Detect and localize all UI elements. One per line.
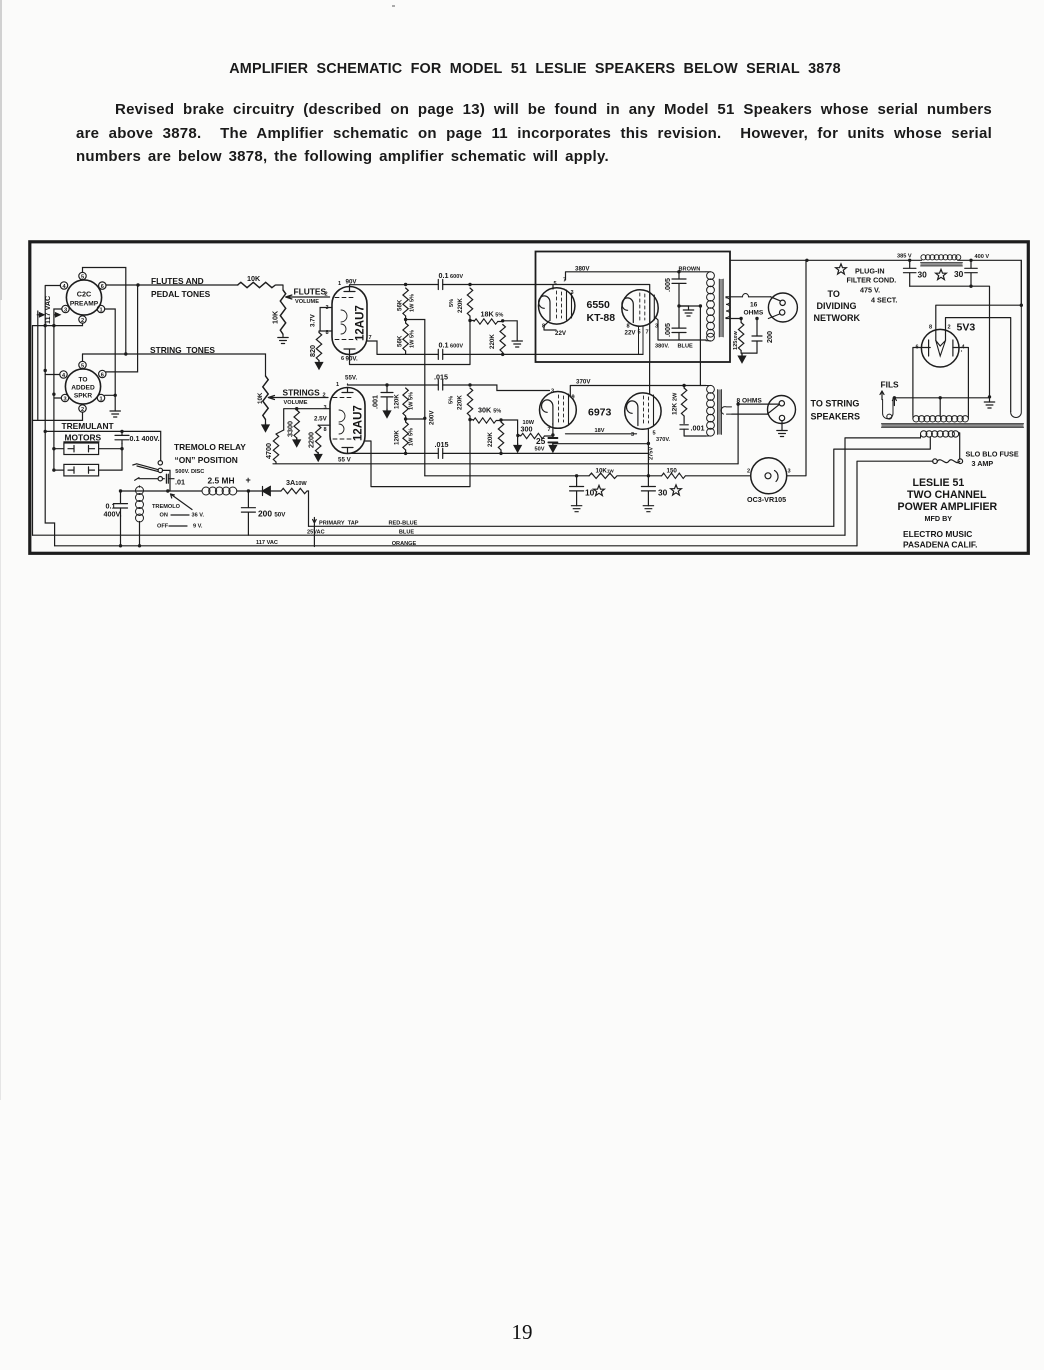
wire secondary to 16 ohm jack: [726, 297, 771, 319]
svg-text:7: 7: [646, 330, 649, 336]
tube 6550/KT-88 #2: [622, 290, 658, 326]
relay contact 3: [158, 477, 162, 481]
svg-text:18V: 18V: [595, 428, 605, 434]
svg-text:12510W: 12510W: [733, 331, 739, 350]
pin 1 (spkr): [97, 394, 104, 402]
svg-text:50V: 50V: [535, 447, 545, 453]
capacitor .005 (upper): [678, 272, 680, 306]
svg-text:3: 3: [788, 469, 791, 475]
ground (820): [315, 361, 322, 370]
tube socket C2C PREAMP: [66, 280, 101, 315]
capacitor 0.1 600V (lower coupling): [367, 341, 643, 354]
wire cap/coil drops: [120, 535, 122, 546]
svg-text:BLUE: BLUE: [399, 530, 414, 536]
svg-text:3300: 3300: [286, 421, 295, 437]
svg-text:ADDED: ADDED: [71, 385, 95, 392]
capacitor 30 (star): [647, 476, 649, 506]
filament bus wire: [894, 397, 989, 399]
resistor 3A 10W: [281, 478, 309, 526]
svg-text:.005: .005: [663, 278, 672, 292]
svg-text:.015: .015: [435, 440, 449, 449]
svg-text:400V.: 400V.: [104, 510, 122, 519]
center tap 5V winding: [939, 398, 941, 416]
tube 6973 #1: [540, 392, 577, 429]
wire left bus 1: [32, 326, 34, 536]
wire box B+ to filter: [730, 259, 910, 261]
svg-text:400 V: 400 V: [975, 254, 990, 260]
svg-text:OC3-VR105: OC3-VR105: [747, 495, 786, 504]
svg-text:ELECTRO MUSIC: ELECTRO MUSIC: [903, 529, 972, 539]
choke core: [921, 263, 963, 266]
svg-text:1: 1: [336, 382, 339, 388]
speaker jack 8 ohms J2: [767, 396, 795, 424]
svg-text:220K: 220K: [457, 298, 464, 313]
svg-text:3: 3: [631, 432, 634, 438]
ground (30): [643, 506, 653, 512]
tube 12AU7 (strings) V2: [330, 388, 365, 454]
pin 4 (preamp): [60, 282, 67, 290]
svg-text:RED-BLUE: RED-BLUE: [389, 521, 418, 527]
capacitor .01 disc: [163, 474, 186, 486]
wire pin5 top loop to string tones junction: [83, 268, 126, 355]
svg-text:.005: .005: [663, 323, 672, 337]
svg-text:1: 1: [99, 307, 102, 313]
wire rail left riser: [425, 475, 589, 477]
resistor 2200: [318, 424, 330, 426]
wire 18V line: [566, 433, 637, 435]
svg-text:PLUG-IN: PLUG-IN: [855, 267, 885, 276]
capacitor .001 (12K): [680, 425, 689, 429]
ground (125/200): [741, 353, 757, 356]
svg-text:5: 5: [638, 330, 641, 336]
117VAC primary winding: [921, 431, 959, 438]
svg-text:18K 5%: 18K 5%: [481, 310, 504, 319]
wire to pot: [276, 285, 283, 290]
svg-text:3: 3: [324, 405, 327, 411]
svg-text:2200: 2200: [307, 432, 316, 448]
inductor 2.5MH: [202, 476, 248, 496]
wire relay contact2 to B line: [163, 470, 171, 491]
pin 5 (preamp): [79, 272, 86, 280]
svg-text:TO: TO: [78, 377, 87, 384]
wire spkr pin3: [54, 394, 61, 469]
svg-text:5%: 5%: [449, 299, 455, 307]
ground (strings 220K): [514, 444, 521, 453]
pin 6 (preamp): [99, 282, 106, 290]
svg-text:3: 3: [64, 307, 67, 313]
wire motors left: [54, 449, 64, 470]
svg-text:30: 30: [918, 270, 928, 280]
ground (preamp p1): [110, 411, 120, 417]
rectifier tube 5V3: [921, 329, 961, 367]
5V rectifier filament winding: [913, 415, 969, 422]
wire orange rail to fuse: [857, 461, 933, 546]
wire red-blue rail to primary tap: [834, 437, 931, 526]
PT core: [882, 424, 1024, 427]
node +: [247, 489, 250, 492]
wire pin4 left: [45, 286, 60, 371]
svg-text:STRINGS: STRINGS: [283, 388, 321, 398]
star (10): [594, 485, 605, 495]
tube 6973 #2: [625, 393, 661, 429]
wire 220K top to 300 node: [501, 420, 518, 436]
svg-text:3A10W: 3A10W: [286, 478, 307, 487]
svg-text:220K: 220K: [457, 395, 464, 410]
svg-text:55V.: 55V.: [345, 375, 357, 382]
wire grid1 entering box + screen tie: [537, 285, 650, 363]
svg-text:MFD BY: MFD BY: [925, 514, 953, 523]
svg-text:2: 2: [323, 393, 326, 399]
wire 5V3 pin6 down: [913, 348, 922, 416]
svg-text:220K: 220K: [489, 334, 496, 349]
svg-text:.015: .015: [434, 373, 448, 382]
svg-text:500V. DISC: 500V. DISC: [175, 469, 204, 475]
svg-text:200: 200: [765, 331, 774, 343]
pin 2 (spkr): [79, 405, 86, 413]
svg-text:2: 2: [325, 292, 328, 298]
svg-text:BLUE: BLUE: [678, 343, 693, 349]
wire 5V3 pin4 down: [962, 348, 969, 416]
svg-text:8: 8: [324, 427, 327, 433]
svg-text:FLUTES AND: FLUTES AND: [151, 276, 204, 286]
svg-text:200V: 200V: [429, 410, 436, 425]
tube 12AU7 (flutes) V1: [332, 287, 367, 355]
svg-text:12K 2W: 12K 2W: [672, 392, 679, 415]
svg-text:POWER AMPLIFIER: POWER AMPLIFIER: [898, 501, 998, 513]
svg-text:MOTORS: MOTORS: [65, 433, 102, 443]
resistor 12K 2W: [681, 388, 686, 416]
svg-text:10K: 10K: [257, 392, 264, 404]
svg-text:0.1 600V: 0.1 600V: [439, 341, 464, 350]
svg-text:820: 820: [308, 345, 317, 357]
page title: [13, 61, 1044, 77]
output transformer T1 primary: [706, 272, 714, 341]
resistor 120K 1W5% (upper): [403, 388, 408, 416]
resistor 220K 5% (strings grid 1): [467, 388, 472, 416]
svg-text:3.7V: 3.7V: [310, 313, 317, 327]
wire left bus 3: [45, 371, 54, 546]
svg-text:8: 8: [929, 325, 932, 331]
svg-text:3: 3: [571, 290, 574, 296]
svg-text:6550: 6550: [587, 299, 611, 311]
tube socket TO ADDED SPKR: [65, 369, 100, 404]
svg-text:FILTER COND.: FILTER COND.: [847, 276, 897, 285]
pin 6 (spkr): [99, 370, 106, 378]
svg-text:22V: 22V: [625, 330, 637, 337]
svg-text:2: 2: [948, 325, 951, 331]
power transformer PT windings top: left loop: [883, 398, 893, 419]
svg-text:SPEAKERS: SPEAKERS: [811, 412, 861, 422]
svg-text:.001: .001: [691, 424, 705, 433]
svg-text:5: 5: [653, 431, 656, 437]
pin 2 (preamp): [79, 316, 86, 324]
NFB wire: [406, 320, 425, 476]
svg-text:VOLUME: VOLUME: [295, 299, 319, 305]
svg-text:TREMOLO RELAY: TREMOLO RELAY: [174, 442, 246, 452]
wire spkr pin5 top: [82, 354, 84, 361]
svg-text:.001: .001: [371, 395, 380, 409]
svg-text:.01: .01: [175, 478, 185, 487]
svg-text:200 50V: 200 50V: [258, 509, 286, 519]
ground (PT center): [989, 399, 991, 402]
svg-text:10K: 10K: [247, 274, 261, 283]
resistor 3300: [284, 409, 330, 430]
cathode 22V wire tube1: [544, 321, 556, 330]
diode: [248, 487, 281, 496]
svg-text:6: 6: [341, 356, 344, 362]
svg-text:1W 5%: 1W 5%: [410, 294, 416, 312]
relay armature: [133, 464, 158, 481]
svg-text:7: 7: [369, 335, 372, 341]
wire motors right: [99, 443, 122, 470]
capacitor 200 50V: [241, 491, 286, 535]
117VAC input arrows: [37, 313, 60, 317]
relay coil: [136, 486, 144, 546]
capacitor .015 (upper coupling): [406, 384, 470, 386]
capacitor 30 (filter 1): [909, 260, 911, 286]
tremolo legend pointer: [171, 494, 193, 510]
potentiometer 10K flutes volume: [271, 290, 330, 344]
plate wire 380V to transformer: [566, 272, 707, 280]
svg-text:3: 3: [551, 389, 554, 395]
svg-text:5%: 5%: [449, 396, 455, 404]
svg-text:5: 5: [81, 274, 84, 280]
ground (between .005s): [679, 306, 689, 310]
svg-text:PREAMP: PREAMP: [70, 301, 99, 308]
svg-text:2.5 MH: 2.5 MH: [208, 476, 235, 486]
T2 secondary: [721, 407, 732, 415]
svg-text:9: 9: [572, 395, 575, 401]
wire 6973 cathode bus: [553, 443, 649, 445]
svg-text:16: 16: [750, 302, 758, 309]
wire relay common to B line: [121, 490, 203, 492]
svg-text:3 AMP: 3 AMP: [972, 459, 994, 468]
capacitor .005 (lower): [679, 306, 706, 340]
capacitor 0.1 400V (line): [104, 491, 128, 535]
wire plate top to B+ rail: [350, 285, 406, 287]
capacitor .015 (lower coupling): [348, 452, 350, 454]
pin 1 (preamp): [97, 305, 104, 313]
svg-text:56K: 56K: [397, 299, 404, 311]
svg-text:PRIMARY TAP: PRIMARY TAP: [319, 521, 359, 527]
svg-text:TREMULANT: TREMULANT: [62, 421, 115, 431]
svg-text:6973: 6973: [588, 407, 612, 419]
ground (18K/220K): [503, 321, 518, 341]
wire blue rail to primary: [845, 438, 921, 535]
output stage box: [536, 252, 731, 363]
svg-text:90V.: 90V.: [346, 356, 358, 363]
capacitor 200 (across 125): [756, 319, 758, 354]
svg-text:120K: 120K: [394, 430, 401, 445]
svg-text:FLUTES: FLUTES: [294, 287, 327, 297]
svg-text:22V: 22V: [555, 330, 567, 337]
svg-text:1W 5%: 1W 5%: [409, 392, 415, 410]
wire pin1 down to ground: [105, 309, 116, 411]
intro paragraph: [76, 98, 992, 169]
resistor 120K 1W5% (lower): [403, 422, 408, 450]
capacitor 0.1 600V (upper coupling): [406, 284, 537, 286]
grid wire tube2 from 0.1 cap: [639, 326, 644, 354]
schematic frame: [30, 242, 1029, 554]
filter choke L1: [921, 255, 961, 260]
wire 400V to 5V3 pin8: [936, 260, 1022, 340]
capacitor 0.1 400V (motor): [115, 431, 160, 444]
svg-text:FILS: FILS: [881, 380, 900, 390]
T2 core: [718, 390, 722, 435]
svg-text:OHMS: OHMS: [744, 310, 764, 317]
svg-text:5: 5: [81, 363, 84, 369]
pin 3 (preamp): [62, 305, 69, 313]
T1 core: [719, 279, 723, 337]
wire tremolo top rail: [45, 431, 161, 460]
tremulant motor 1: [64, 443, 99, 455]
svg-text:10K1W: 10K1W: [596, 468, 615, 475]
relay contact 2: [158, 468, 162, 472]
wire plate 2 bottom rail: [350, 321, 471, 365]
svg-text:5V3: 5V3: [957, 322, 976, 334]
svg-text:PASADENA CALIF.: PASADENA CALIF.: [903, 540, 977, 550]
wire pin2 to left bus: [33, 323, 83, 325]
svg-text:+: +: [246, 475, 251, 485]
svg-text:C2C: C2C: [77, 290, 91, 299]
svg-text:120K: 120K: [394, 394, 401, 409]
HV winding right loop: [1011, 260, 1022, 417]
svg-text:25VAC: 25VAC: [307, 530, 325, 536]
svg-text:300: 300: [521, 425, 533, 434]
wire rail blue: [33, 534, 846, 536]
wire flutes to spkr pin6: [106, 285, 137, 372]
tube 6550/KT-88 #1: [539, 288, 575, 324]
svg-text:PEDAL TONES: PEDAL TONES: [151, 289, 211, 299]
svg-text:380V.: 380V.: [655, 344, 670, 350]
svg-text:2.5V: 2.5V: [314, 416, 328, 423]
filter ground bus: [910, 286, 990, 397]
cathode 6973#1 to 25/50V: [552, 424, 554, 438]
wire 120K junction to NFB: [406, 418, 425, 420]
speaker jack 16 ohms J1: [768, 293, 797, 322]
svg-text:TREMOLO: TREMOLO: [152, 504, 181, 510]
capacitor 10 (star): [576, 476, 578, 506]
svg-text:36 V.: 36 V.: [192, 513, 205, 519]
ground (8 ohm jack): [781, 421, 783, 431]
B+ wire 370V: [570, 386, 706, 398]
svg-text:220K: 220K: [487, 432, 494, 447]
resistor 125 10W: [739, 317, 742, 320]
capacitor .001 + ground: [385, 383, 388, 386]
wire spkr pin2 down: [33, 412, 83, 420]
svg-text:12AU7: 12AU7: [355, 305, 367, 341]
wire spkr pin4: [45, 374, 60, 376]
FILS arrows: [880, 391, 896, 406]
wire 25VAC tap: [313, 518, 317, 547]
svg-text:6: 6: [101, 372, 104, 378]
svg-text:7: 7: [548, 427, 551, 433]
svg-text:6: 6: [101, 284, 104, 290]
svg-text:10K: 10K: [271, 310, 280, 324]
svg-text:VOLUME: VOLUME: [284, 400, 308, 406]
wire plate top (strings): [348, 384, 406, 385]
resistor 220K (strings grid 2): [498, 422, 503, 450]
svg-text:4700: 4700: [264, 443, 273, 459]
pin 3 (spkr): [61, 394, 68, 402]
svg-text:1: 1: [99, 396, 102, 402]
svg-text:NETWORK: NETWORK: [814, 313, 861, 323]
resistor 10K (flutes series): [238, 274, 276, 288]
cathode junction 6973: [647, 442, 650, 445]
svg-text:30: 30: [954, 269, 964, 279]
svg-text:0.1 600V: 0.1 600V: [439, 271, 464, 280]
star (filter mid): [936, 269, 947, 279]
wire OC3 to filter riser: [787, 260, 806, 476]
svg-text:SLO BLO FUSE: SLO BLO FUSE: [966, 450, 1019, 459]
resistor 4700: [276, 430, 284, 434]
wire spkr pin1 to ground: [105, 394, 116, 396]
svg-text:TO STRING: TO STRING: [811, 399, 860, 409]
svg-text:385 V: 385 V: [897, 254, 912, 260]
relay contact 1: [158, 461, 162, 465]
svg-text:117 VAC: 117 VAC: [43, 296, 52, 324]
fuse 3A slo-blo: [933, 459, 963, 464]
svg-text:1W 5%: 1W 5%: [410, 330, 416, 348]
svg-text:475 V.: 475 V.: [860, 286, 880, 295]
tremulant motor 2: [64, 464, 99, 476]
pin 4 (spkr): [60, 371, 67, 379]
ground (25): [549, 444, 556, 453]
svg-text:25: 25: [536, 436, 546, 446]
star (filter note): [836, 264, 847, 274]
svg-text:55 V: 55 V: [338, 457, 352, 464]
wire left bus 2: [37, 311, 39, 420]
resistor 56K 1W5% (lower): [405, 316, 407, 323]
plate wire tube2: [655, 317, 679, 340]
svg-text:TWO CHANNEL: TWO CHANNEL: [907, 489, 987, 501]
capacitor 25 50V: [552, 437, 554, 446]
svg-text:KT-88: KT-88: [587, 312, 616, 324]
resistor 220K (flutes grid 2): [500, 325, 505, 353]
svg-text:56K: 56K: [397, 335, 404, 347]
svg-text:370V.: 370V.: [656, 437, 671, 443]
svg-text:SPKR: SPKR: [74, 393, 93, 400]
svg-text:OFF: OFF: [157, 524, 169, 530]
svg-text:“ON” POSITION: “ON” POSITION: [175, 455, 238, 465]
wire to 8 ohm jack: [732, 413, 767, 415]
svg-text:LESLIE 51: LESLIE 51: [913, 477, 965, 489]
svg-text:117 VAC: 117 VAC: [256, 540, 278, 546]
svg-text:3: 3: [63, 396, 66, 402]
svg-text:370V: 370V: [576, 379, 591, 386]
svg-text:9 V.: 9 V.: [193, 524, 203, 530]
wire rail red-blue: [309, 525, 834, 527]
potentiometer 10K strings volume: [257, 376, 328, 432]
resistor 220K 5% (flutes grid 1): [467, 288, 472, 316]
svg-text:30: 30: [658, 488, 668, 498]
svg-text:275V: 275V: [649, 447, 655, 460]
svg-text:DIVIDING: DIVIDING: [817, 301, 857, 311]
junction: [136, 283, 139, 286]
wire jack top contact to bias rail: [736, 402, 739, 405]
svg-text:ON: ON: [160, 513, 168, 519]
svg-text:4 SECT.: 4 SECT.: [871, 296, 897, 305]
svg-text:1: 1: [338, 281, 341, 287]
wire grid to 6973: [470, 385, 550, 391]
wire pin6 to flutes line: [106, 284, 238, 286]
pin 5 (spkr): [79, 361, 86, 369]
ground (.001): [383, 409, 390, 418]
wire 5V3 pin2 to HV winding: [946, 318, 1011, 412]
wire string tones: [83, 354, 266, 376]
wire pin3 down bus: [54, 309, 62, 394]
star (30): [671, 485, 682, 495]
